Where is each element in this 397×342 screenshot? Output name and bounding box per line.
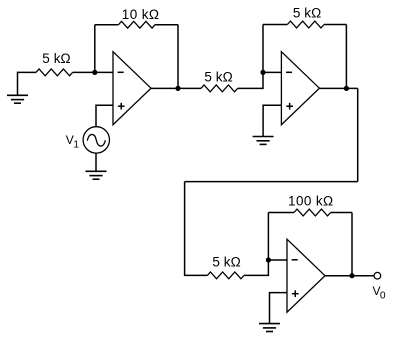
wire U1 plus input [96,105,113,127]
ground G4 [259,324,280,332]
svg-text:5 kΩ: 5 kΩ [204,69,233,84]
wire U3 plus input to ground [270,293,288,324]
wire feedback top U2 [263,24,346,26]
op-amp U2 [281,52,319,125]
svg-text:1: 1 [73,140,79,151]
node E junction dot [266,257,271,262]
resistor R6 [294,209,331,216]
svg-text:5 kΩ: 5 kΩ [212,255,241,270]
resistor R3 [201,85,238,92]
resistor R2 [119,21,156,28]
wire G1 to R1 [18,72,37,95]
wire feedback left U2 [262,25,264,73]
wire R5 to node E [244,260,268,275]
node C junction dot [260,70,265,75]
wire node C to U2 minus [263,71,281,73]
svg-text:5 kΩ: 5 kΩ [42,51,71,66]
wire U1 output [151,87,201,89]
wire feedback left U3 [267,213,269,261]
svg-text:10 kΩ: 10 kΩ [122,7,160,22]
svg-text:0: 0 [380,290,386,301]
svg-text:100 kΩ: 100 kΩ [288,193,334,208]
wire U2 output [319,87,357,89]
wire feedback left U1 [94,25,96,73]
ground G3 [253,137,274,145]
resistor R4 [287,21,324,28]
svg-text:5 kΩ: 5 kΩ [293,6,322,21]
op-amp U3 [287,239,325,312]
terminal V0 [374,272,381,279]
wire feedback right U2 [345,25,347,89]
op-amp U1 [113,52,151,125]
wire link down to R5 [185,182,208,276]
node F output dot U3 [349,273,354,278]
source V1 [83,127,109,153]
wire U2 plus input to ground [263,105,281,136]
wire R3 to node C [238,72,263,88]
node A junction dot [92,70,97,75]
wire feedback right U3 [351,213,353,276]
wire link horizontal [185,181,358,183]
wire feedback top U1 [95,24,178,26]
ground G2 [86,171,107,179]
ground G1 [7,95,28,103]
resistor R1 [36,69,73,76]
wire node E to U3 minus [268,259,287,261]
wire feedback right U1 [177,25,179,89]
resistor R5 [207,272,244,279]
wire feedback top U3 [268,212,352,214]
wire V1 to ground [95,153,97,171]
wire U3 output [325,275,374,277]
node B output dot U1 [175,86,180,91]
wire R1 to node A [73,71,113,73]
node D output dot U2 [344,86,349,91]
wire U2 output down [357,88,359,181]
